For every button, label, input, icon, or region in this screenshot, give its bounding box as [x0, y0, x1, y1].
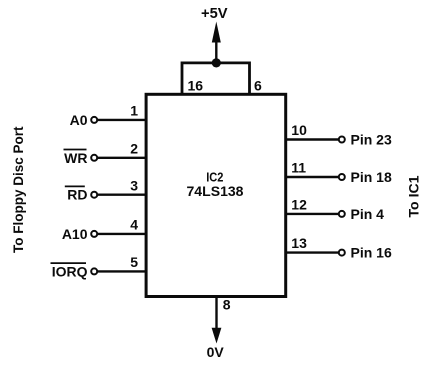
overline WR	[64, 149, 87, 151]
wire pin 5 (IORQ)	[97, 270, 147, 272]
svg-text:WR: WR	[64, 150, 87, 166]
svg-text:To Floppy Disc Port: To Floppy Disc Port	[11, 126, 26, 253]
wire pin 1 (A0)	[97, 119, 147, 121]
svg-text:IORQ: IORQ	[52, 263, 88, 279]
overline IORQ	[51, 262, 87, 264]
wire pin 2 (WR)	[97, 157, 147, 159]
arrowhead +5V	[212, 22, 221, 43]
svg-text:16: 16	[188, 77, 204, 93]
svg-text:+5V: +5V	[201, 5, 228, 22]
wire pin 11 (Pin 18)	[286, 176, 339, 178]
wire: +5V bracket joining pin 16 and pin 6	[182, 63, 250, 95]
terminal circle Pin 4	[339, 211, 345, 217]
svg-text:Pin 18: Pin 18	[351, 169, 392, 185]
terminal circle RD	[91, 192, 97, 198]
svg-text:13: 13	[291, 235, 307, 251]
arrowhead 0V	[212, 328, 222, 344]
svg-text:5: 5	[130, 254, 138, 270]
terminal circle WR	[91, 155, 97, 161]
svg-text:6: 6	[254, 77, 262, 93]
svg-text:0V: 0V	[207, 344, 225, 360]
terminal circle Pin 18	[339, 174, 345, 180]
svg-text:74LS138: 74LS138	[187, 183, 244, 199]
wire pin 3 (RD)	[97, 193, 147, 195]
svg-text:10: 10	[291, 122, 307, 138]
svg-text:A0: A0	[70, 112, 88, 128]
svg-text:4: 4	[130, 217, 138, 233]
svg-text:RD: RD	[67, 187, 87, 203]
svg-text:Pin 4: Pin 4	[351, 206, 385, 222]
wire: +5V stem	[215, 41, 217, 65]
svg-text:11: 11	[291, 160, 306, 176]
overline RD	[65, 185, 85, 187]
wire pin 13 (Pin 16)	[286, 251, 339, 253]
svg-text:12: 12	[291, 197, 307, 213]
junction dot on bracket	[212, 58, 221, 67]
svg-text:To IC1: To IC1	[406, 175, 422, 217]
IC U1 body (IC2 74LS138)	[146, 94, 286, 296]
terminal circle A0	[91, 117, 97, 123]
svg-text:A10: A10	[62, 226, 88, 242]
svg-text:Pin 16: Pin 16	[351, 245, 392, 261]
svg-text:1: 1	[130, 103, 138, 119]
svg-text:Pin 23: Pin 23	[351, 132, 392, 148]
wire pin 4 (A10)	[97, 233, 147, 235]
wire pin 10 (Pin 23)	[286, 138, 339, 140]
terminal circle Pin 23	[339, 137, 345, 143]
terminal circle Pin 16	[339, 250, 345, 256]
svg-text:8: 8	[223, 296, 231, 312]
svg-text:2: 2	[130, 140, 138, 156]
wire pin 12 (Pin 4)	[286, 213, 339, 215]
wire: 0V stem (pin 8)	[215, 297, 217, 329]
svg-text:3: 3	[130, 177, 138, 193]
terminal circle A10	[91, 231, 97, 237]
terminal circle IORQ	[91, 268, 97, 274]
